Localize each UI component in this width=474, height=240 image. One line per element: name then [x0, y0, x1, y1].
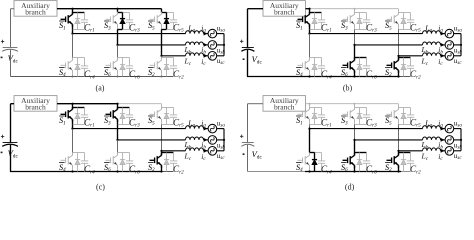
negative bus wire (bottom) — [11, 76, 174, 78]
current arrow ib — [441, 43, 445, 47]
transistor S1 — [61, 107, 73, 122]
wire upper cell to phase rail leg 1 — [309, 30, 311, 34]
wire from auxiliary branch to Vdc positive — [248, 103, 264, 105]
wire emitter leg 1 lower — [72, 70, 74, 76]
diode D4 — [75, 153, 80, 172]
node: neutral junction — [223, 139, 225, 141]
svg-text:branch: branch — [25, 103, 46, 112]
current arrow ia — [204, 32, 208, 36]
label S4 — [296, 67, 302, 69]
wire bus to upper cell leg 2 — [117, 104, 119, 108]
inductor Lc — [186, 148, 204, 151]
phase a rail wire — [310, 33, 423, 35]
negative bus wire (bottom) — [248, 171, 306, 173]
transistor S6 — [106, 153, 118, 168]
wire inductor to source a — [441, 33, 446, 35]
phase b rail wire — [118, 139, 186, 141]
node: upper cell top leg 2 — [355, 107, 367, 109]
wire emitter leg 1 lower — [309, 70, 311, 76]
wire from auxiliary branch to Vdc positive — [11, 8, 15, 10]
label S1 — [59, 115, 65, 117]
phase b rail wire — [355, 139, 423, 141]
node: neutral junction — [460, 139, 462, 141]
node: upper cell bottom leg 1 — [310, 29, 322, 31]
diode D2 — [164, 58, 169, 77]
source u_sa — [208, 124, 217, 133]
positive bus bend at leg 3 — [398, 104, 400, 108]
label - terminal — [243, 153, 245, 155]
node: leg 1 on negative bus — [308, 170, 310, 172]
svg-text:branch: branch — [274, 8, 295, 17]
wire Vdc negative lead — [10, 50, 12, 77]
node: lower cell top leg 1 — [73, 57, 85, 59]
node: upper cell top leg 3 — [399, 12, 411, 14]
neutral bus wire (right) — [223, 34, 225, 56]
wire upper cell to phase rail leg 2 — [117, 30, 119, 45]
wire collector leg 2 upper — [117, 13, 119, 15]
wire emitter leg 3 lower — [161, 165, 163, 171]
node: upper cell bottom leg 3 — [162, 124, 174, 126]
label S3 — [104, 115, 110, 117]
label S3 — [341, 115, 347, 117]
node: leg 2 on positive bus — [116, 103, 118, 105]
wire inductor to source b — [441, 44, 446, 46]
inductor Lc — [423, 53, 441, 56]
node: leg 3 on negative bus — [161, 76, 163, 78]
wire inductor to source a — [204, 128, 209, 130]
node: leg 1 on positive bus — [308, 8, 310, 10]
capacitor Cr4 — [318, 58, 325, 77]
capacitor Cr6 — [363, 153, 370, 172]
capacitor Cr5 — [170, 13, 177, 30]
label S3 — [341, 20, 347, 22]
transistor S3 — [106, 12, 118, 27]
wire emitter leg 2 upper — [354, 119, 356, 124]
diode D5 — [401, 13, 406, 30]
positive bus bend at leg 3 — [398, 9, 400, 13]
wire emitter leg 2 lower — [354, 165, 356, 171]
current arrow ic — [204, 149, 208, 153]
node: leg 1 on positive bus — [71, 8, 73, 10]
transistor S6 — [343, 153, 355, 168]
negative bus wire (bottom) — [247, 76, 399, 78]
label S6 — [341, 162, 347, 164]
wire upper cell to phase rail leg 3 — [161, 30, 163, 56]
wire bus to upper cell leg 1 — [309, 9, 311, 13]
wire emitter leg 1 upper — [72, 24, 74, 29]
wire upper cell to phase rail leg 2 — [354, 30, 356, 45]
capacitor Cr1 — [318, 13, 325, 30]
wire collector leg 3 upper — [161, 108, 163, 110]
label S1 — [59, 20, 65, 22]
label S5 — [385, 20, 391, 22]
node: leg 2 on negative bus — [116, 170, 118, 172]
wire source c to neutral bus — [454, 55, 461, 57]
svg-text:(b): (b) — [343, 84, 353, 93]
wire bus to upper cell leg 2 — [117, 9, 119, 13]
inductor Lb — [423, 137, 441, 140]
node: lower cell top leg 3 — [399, 152, 411, 154]
node: lower cell top leg 1 — [310, 57, 322, 59]
wire emitter leg 2 lower — [117, 165, 119, 171]
wire collector leg 1 upper — [309, 13, 311, 15]
wire inductor to source c — [441, 150, 446, 152]
positive bus bend at leg 3 — [161, 104, 163, 108]
inductor Lb — [186, 137, 204, 140]
phase a rail wire — [73, 128, 186, 130]
label S2 — [148, 162, 154, 164]
node: leg 3 on negative bus — [397, 170, 399, 172]
dc source Vdc — [241, 143, 254, 147]
svg-text:branch: branch — [25, 8, 46, 17]
node: lower cell top leg 2 — [118, 57, 130, 59]
source u_sb — [208, 41, 217, 50]
capacitor Cr2 — [407, 58, 414, 77]
phase b rail wire — [118, 44, 186, 46]
wire emitter leg 2 upper — [354, 24, 356, 29]
node: phase c tap — [397, 150, 399, 152]
diode D1 — [312, 108, 317, 125]
node: upper cell top leg 3 — [399, 107, 411, 109]
label S5 — [385, 115, 391, 117]
wire source c to neutral bus — [454, 150, 461, 152]
wire emitter leg 2 lower — [117, 70, 119, 76]
diode D6 — [357, 153, 362, 172]
current arrow ic — [204, 54, 208, 58]
wire source a to neutral bus — [454, 128, 461, 130]
label + — [240, 40, 243, 43]
wire bus to upper cell leg 1 — [72, 9, 74, 13]
node: lower cell top leg 3 — [162, 57, 174, 59]
wire collector leg 3 lower — [161, 58, 163, 61]
label S1 — [296, 115, 302, 117]
wire inductor to source b — [204, 139, 209, 141]
node: upper cell bottom leg 3 — [399, 29, 411, 31]
diode D6 — [120, 153, 125, 172]
phase c rail wire — [399, 55, 423, 57]
node: leg 2 on positive bus — [116, 8, 118, 10]
source u_sb — [445, 136, 454, 145]
node: leg 1 on negative bus — [72, 76, 74, 78]
wire emitter leg 1 upper — [309, 119, 311, 124]
current arrow ib — [204, 138, 208, 142]
wire phase rail to lower cell leg 3 — [161, 56, 163, 58]
diode D4 — [312, 153, 317, 172]
transistor S2 — [150, 153, 162, 168]
wire emitter leg 2 lower — [354, 70, 356, 76]
wire collector leg 1 lower — [309, 153, 311, 156]
transistor S3 — [343, 107, 355, 122]
wire emitter leg 2 upper — [117, 119, 119, 124]
wire inductor to source c — [204, 150, 209, 152]
wire collector leg 2 upper — [117, 108, 119, 110]
transistor S3 — [343, 12, 355, 27]
wire collector leg 3 lower — [161, 153, 163, 156]
node: phase c tap — [160, 150, 162, 152]
wire collector leg 3 lower — [398, 58, 400, 61]
diode D3 — [120, 13, 125, 30]
phase c rail wire — [162, 150, 186, 152]
wire emitter leg 1 lower — [72, 165, 74, 171]
phase b rail wire — [355, 44, 423, 46]
wire phase rail to lower cell leg 2 — [117, 140, 119, 153]
current arrow ib — [204, 43, 208, 47]
capacitor Cr2 — [170, 153, 177, 172]
dc source Vdc — [2, 48, 18, 52]
label + — [1, 40, 4, 43]
wire inductor to source a — [441, 128, 446, 130]
node: upper cell top leg 2 — [118, 107, 130, 109]
capacitor Cr4 — [81, 58, 88, 77]
node: phase a tap — [71, 33, 73, 35]
source u_sa — [445, 124, 454, 133]
wire emitter leg 3 upper — [398, 24, 400, 29]
wire inductor to source a — [204, 33, 209, 35]
label - terminal — [1, 57, 3, 59]
positive bus bend at leg 3 — [161, 9, 163, 13]
node: upper cell top leg 1 — [73, 107, 85, 109]
capacitor Cr2 — [170, 58, 177, 77]
transistor S5 — [387, 107, 399, 122]
wire collector leg 2 lower — [117, 58, 119, 61]
inductor Lb — [186, 42, 204, 45]
wire phase rail to lower cell leg 1 — [309, 34, 311, 58]
capacitor Cr6 — [126, 153, 133, 172]
wire upper cell to phase rail leg 3 — [398, 125, 400, 151]
transistor S1 — [298, 107, 310, 122]
diode D2 — [164, 153, 169, 172]
label S2 — [385, 162, 391, 164]
wire phase rail to lower cell leg 3 — [398, 56, 400, 58]
wire emitter leg 1 upper — [309, 24, 311, 29]
label S3 — [104, 20, 110, 22]
wire source a to neutral bus — [454, 33, 461, 35]
transistor S4 — [61, 58, 73, 73]
label - terminal — [243, 58, 245, 60]
inductor La — [186, 31, 204, 34]
wire inductor to source c — [204, 55, 209, 57]
diode D4 — [75, 58, 80, 77]
wire emitter leg 2 upper — [117, 24, 119, 29]
diode D3 — [357, 13, 362, 30]
label S6 — [341, 67, 347, 69]
phase c rail wire — [399, 150, 423, 152]
node: upper cell bottom leg 3 — [399, 124, 411, 126]
label S5 — [148, 115, 154, 117]
diode D2 — [401, 153, 406, 172]
diode D3 — [357, 108, 362, 125]
wire emitter leg 3 upper — [161, 119, 163, 124]
wire from auxiliary branch to Vdc positive — [11, 103, 15, 105]
transistor S6 — [106, 58, 118, 73]
wire source a to neutral bus — [217, 128, 224, 130]
transistor S5 — [387, 12, 399, 27]
wire collector leg 1 upper — [72, 108, 74, 110]
wire emitter leg 3 lower — [161, 70, 163, 76]
wire collector leg 2 upper — [354, 108, 356, 110]
label S6 — [104, 162, 110, 164]
transistor S5 — [150, 12, 162, 27]
wire phase rail to lower cell leg 3 — [398, 151, 400, 153]
capacitor Cr3 — [363, 13, 370, 30]
node: upper cell bottom leg 3 — [167, 29, 174, 31]
wire from auxiliary branch to Vdc positive — [248, 8, 264, 10]
node: upper cell bottom leg 1 — [73, 29, 85, 31]
node: upper cell top leg 1 — [310, 107, 322, 109]
positive bus wire (top) — [306, 103, 399, 105]
source u_sc — [445, 52, 454, 61]
node: leg 3 on negative bus — [397, 75, 399, 77]
capacitor Cr3 — [126, 13, 133, 30]
auxiliary branch box — [263, 96, 306, 112]
capacitor Cr5 — [407, 108, 414, 125]
node: neutral junction — [460, 44, 462, 46]
node: leg 1 on negative bus — [71, 170, 73, 172]
capacitor Cr4 — [318, 153, 325, 172]
diode D3 — [120, 108, 125, 125]
transistor S4 — [61, 153, 73, 168]
wire Vdc positive lead — [247, 9, 249, 48]
wire inductor to source b — [441, 139, 446, 141]
svg-text:(d): (d) — [345, 183, 355, 192]
wire collector leg 1 upper — [309, 108, 311, 110]
diode D1 — [75, 13, 80, 30]
positive bus wire (top) — [57, 103, 118, 105]
current arrow ia — [441, 32, 445, 36]
wire collector leg 1 lower — [309, 58, 311, 61]
source u_sc — [208, 52, 217, 61]
wire emitter leg 3 lower — [398, 165, 400, 171]
wire Vdc negative lead — [247, 145, 249, 172]
wire upper cell to phase rail leg 2 — [354, 125, 356, 140]
node: upper cell top leg 2 — [355, 12, 367, 14]
diode D2 — [401, 58, 406, 77]
node: lower cell top leg 3 — [399, 57, 411, 59]
node: phase b tap — [353, 139, 355, 141]
source u_sc — [445, 147, 454, 156]
node: upper cell top leg 1 — [310, 12, 322, 14]
wire upper cell to phase rail leg 3 — [398, 30, 400, 56]
wire phase rail to lower cell leg 2 — [354, 140, 356, 153]
wire bus to upper cell leg 1 — [309, 104, 311, 108]
node: upper cell bottom leg 2 — [118, 124, 130, 126]
wire emitter leg 1 lower — [309, 165, 311, 171]
label S2 — [385, 67, 391, 69]
wire phase rail to lower cell leg 2 — [354, 45, 356, 58]
node: leg 1 on positive bus — [309, 103, 311, 105]
wire upper cell to phase rail leg 1 — [309, 125, 311, 129]
node: lower cell top leg 2 — [355, 57, 367, 59]
wire inductor to source c — [441, 55, 446, 57]
phase c rail wire — [162, 55, 186, 57]
wire collector leg 2 lower — [354, 58, 356, 61]
node: lower cell top leg 1 — [73, 152, 85, 154]
wire Vdc positive lead — [10, 104, 12, 143]
capacitor Cr1 — [318, 108, 325, 125]
node: phase b tap — [116, 44, 118, 46]
node: upper cell bottom leg 2 — [355, 29, 367, 31]
inductor Lb — [423, 42, 441, 45]
auxiliary branch box — [14, 96, 57, 112]
wire collector leg 1 upper — [72, 13, 74, 15]
wire Vdc negative lead — [10, 145, 12, 172]
capacitor Cr3 — [126, 108, 133, 125]
positive bus wire (top) — [306, 8, 310, 10]
wire emitter leg 3 upper — [398, 119, 400, 124]
node: upper cell bottom leg 2 — [123, 29, 130, 31]
capacitor Cr3 — [363, 108, 370, 125]
wire collector leg 3 upper — [398, 108, 400, 110]
neutral bus wire (right) — [460, 34, 462, 56]
transistor S2 — [387, 58, 399, 73]
wire emitter leg 1 upper — [72, 119, 74, 124]
node: lower cell top leg 1 — [310, 152, 315, 154]
inductor La — [186, 126, 204, 129]
wire emitter leg 3 upper — [161, 24, 163, 29]
wire collector leg 1 lower — [72, 153, 74, 156]
wire source b to neutral bus — [217, 44, 224, 46]
node: leg 2 on negative bus — [353, 170, 355, 172]
transistor S1 — [61, 12, 73, 27]
node: lower cell top leg 3 — [162, 152, 174, 154]
capacitor Cr5 — [407, 13, 414, 30]
wire upper cell to phase rail leg 2 — [117, 125, 119, 140]
diode D6 — [120, 58, 125, 77]
source u_sa — [445, 29, 454, 38]
transistor S4 — [298, 153, 310, 168]
capacitor Cr2 — [407, 153, 414, 172]
wire phase rail to lower cell leg 1 — [72, 34, 74, 58]
node: leg 3 on negative bus — [160, 170, 162, 172]
diode D5 — [401, 108, 406, 125]
wire upper cell to phase rail leg 1 — [72, 125, 74, 129]
wire collector leg 3 upper — [398, 13, 400, 15]
neutral bus wire (right) — [460, 129, 462, 151]
label S4 — [59, 162, 65, 164]
svg-text:(a): (a) — [96, 84, 105, 93]
node: leg 2 on positive bus — [354, 8, 356, 10]
wire upper cell to phase rail leg 3 — [161, 125, 163, 151]
label + — [240, 135, 243, 138]
svg-text:branch: branch — [274, 103, 295, 112]
wire collector leg 2 lower — [354, 153, 356, 156]
label S4 — [59, 67, 65, 69]
wire upper cell to phase rail leg 1 — [72, 30, 74, 34]
node: upper cell bottom leg 1 — [310, 124, 322, 126]
label S6 — [104, 67, 110, 69]
node: upper cell top leg 3 — [162, 107, 174, 109]
label S5 — [148, 20, 154, 22]
negative bus wire (bottom) — [10, 171, 162, 173]
capacitor Cr6 — [126, 58, 133, 77]
wire source b to neutral bus — [454, 44, 461, 46]
inductor Lc — [186, 53, 204, 56]
transistor S1 — [298, 12, 310, 27]
wire phase rail to lower cell leg 1 — [72, 129, 74, 153]
current arrow ic — [441, 149, 445, 153]
node: phase b tap — [116, 139, 118, 141]
wire source b to neutral bus — [454, 139, 461, 141]
dc source Vdc — [2, 143, 18, 147]
node: lower cell top leg 2 — [355, 152, 367, 154]
transistor S5 — [150, 107, 162, 122]
wire phase rail to lower cell leg 3 — [161, 151, 163, 153]
wire inductor to source b — [204, 44, 209, 46]
phase a rail wire — [310, 128, 423, 130]
diode D1 — [312, 13, 317, 30]
node: phase b tap — [353, 44, 355, 46]
neutral bus wire (right) — [223, 129, 225, 151]
